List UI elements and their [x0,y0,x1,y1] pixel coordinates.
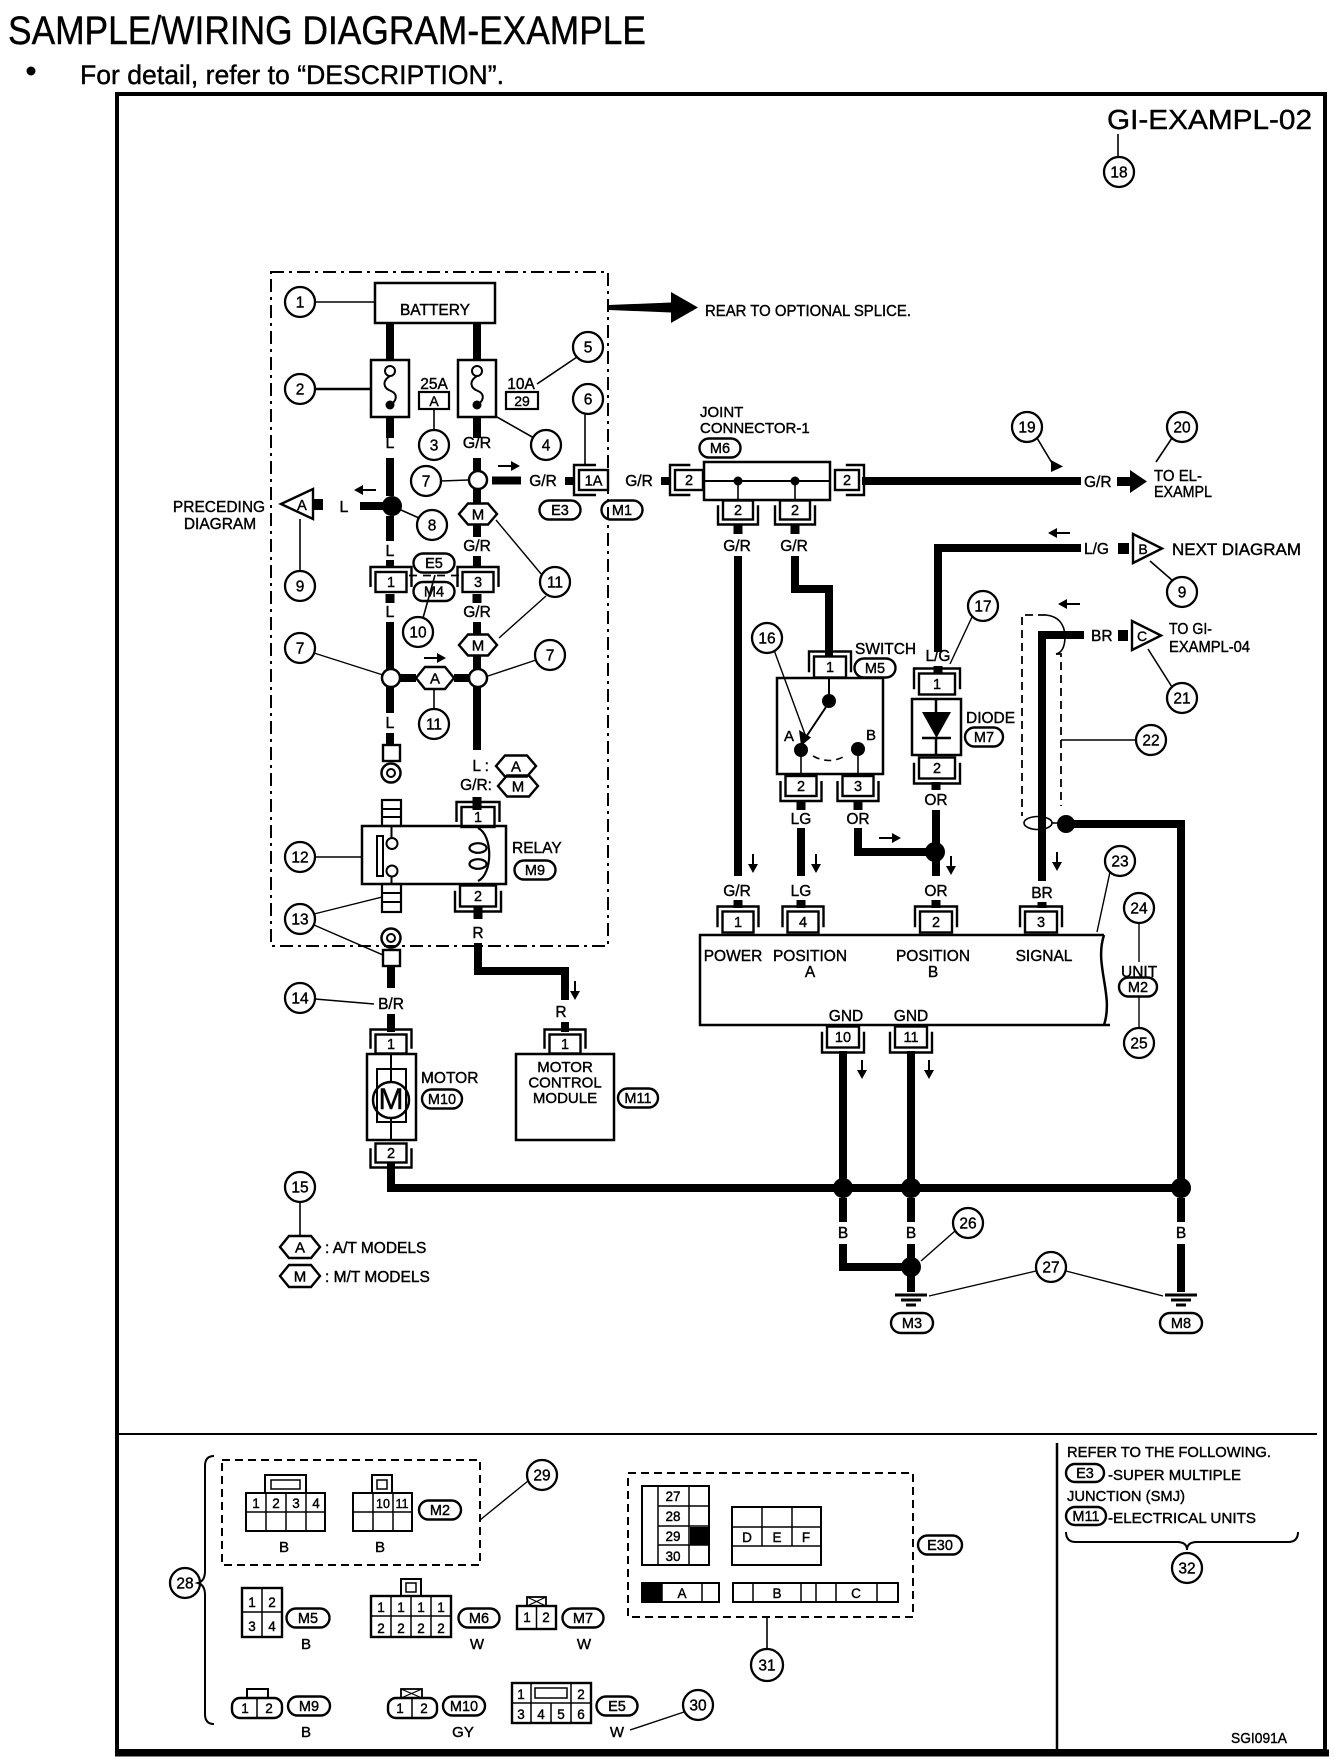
svg-text:2: 2 [387,1146,395,1162]
svg-text:2: 2 [797,779,805,795]
svg-text:REFER TO THE FOLLOWING.: REFER TO THE FOLLOWING. [1067,1444,1271,1461]
svg-text:7: 7 [546,648,555,665]
svg-text:POSITION: POSITION [773,948,847,965]
svg-text:7: 7 [296,641,305,658]
svg-text:5: 5 [584,340,593,357]
svg-text:OR: OR [846,811,869,828]
svg-text:1: 1 [241,1701,249,1716]
svg-text:M10: M10 [428,1092,456,1108]
svg-text:: M/T MODELS: : M/T MODELS [325,1269,430,1286]
svg-text:BR: BR [1091,628,1113,645]
svg-text:GY: GY [452,1724,474,1741]
svg-text:20: 20 [1173,420,1191,437]
svg-text:R: R [472,925,483,942]
svg-text:W: W [470,1636,485,1653]
svg-text:G/R: G/R [780,538,808,555]
svg-text:27: 27 [1042,1260,1059,1277]
svg-text:3: 3 [854,779,862,795]
svg-text:2: 2 [417,1621,425,1636]
svg-text:L: L [386,543,395,560]
svg-text:16: 16 [758,631,775,648]
svg-text:G/R: G/R [463,604,491,621]
svg-text:14: 14 [291,991,309,1008]
svg-text:1: 1 [474,810,482,826]
svg-text:D: D [742,1530,752,1545]
svg-text:1: 1 [296,295,305,312]
svg-text:3: 3 [474,575,482,591]
svg-text:M8: M8 [1171,1316,1191,1332]
svg-text:M5: M5 [298,1611,318,1627]
svg-text:M: M [472,638,485,655]
svg-text:SAMPLE/WIRING DIAGRAM-EXAMPLE: SAMPLE/WIRING DIAGRAM-EXAMPLE [8,9,646,53]
svg-text:G/R: G/R [1084,474,1112,491]
svg-text:2: 2 [397,1621,405,1636]
svg-text:B: B [906,1225,916,1242]
svg-text:11: 11 [903,1030,918,1046]
svg-text:13: 13 [291,912,308,929]
svg-text:1: 1 [933,677,941,693]
svg-text:G/R: G/R [723,538,751,555]
svg-text:M7: M7 [573,1611,593,1627]
svg-text:DIAGRAM: DIAGRAM [184,516,256,533]
svg-text:1: 1 [523,1610,531,1625]
svg-text:F: F [802,1530,810,1545]
svg-text:1: 1 [248,1595,256,1610]
svg-text:B: B [1176,1225,1186,1242]
svg-text:M11: M11 [624,1091,651,1107]
svg-text:26: 26 [959,1216,976,1233]
svg-text:29: 29 [533,1468,550,1485]
svg-text:M2: M2 [1128,980,1148,996]
svg-text:TO EL-: TO EL- [1154,468,1202,485]
svg-text:11: 11 [396,1497,409,1511]
svg-text:12: 12 [291,850,308,867]
svg-text:M2: M2 [430,1503,450,1519]
svg-text:17: 17 [974,599,991,616]
svg-text:MODULE: MODULE [533,1090,597,1107]
svg-text:M5: M5 [865,661,885,677]
svg-text:2: 2 [685,473,693,489]
svg-text:G/R: G/R [625,473,653,490]
svg-text:1: 1 [377,1600,385,1615]
svg-text:2: 2 [272,1496,280,1511]
svg-text:28: 28 [176,1576,193,1593]
svg-text:30: 30 [665,1549,680,1564]
svg-text:CONTROL: CONTROL [528,1075,601,1092]
svg-text:3: 3 [292,1496,300,1511]
svg-text:19: 19 [1018,420,1035,437]
svg-text:2: 2 [377,1621,385,1636]
svg-text:B: B [838,1225,848,1242]
svg-text:9: 9 [1178,585,1187,602]
svg-text:M1: M1 [612,503,632,519]
svg-text:2: 2 [933,761,941,777]
svg-text:POSITION: POSITION [896,948,970,965]
svg-text:3: 3 [517,1707,525,1722]
svg-text:GND: GND [894,1008,928,1025]
svg-text:M9: M9 [525,863,545,879]
svg-text:R: R [555,1004,566,1021]
svg-text:2: 2 [296,382,305,399]
svg-text:E5: E5 [608,1699,626,1715]
svg-text:OR: OR [924,792,947,809]
svg-text:2: 2 [843,473,851,489]
svg-text:LG: LG [791,883,812,900]
svg-text:A: A [297,498,307,514]
svg-text:M11: M11 [1072,1509,1099,1525]
svg-text:OR: OR [924,883,947,900]
svg-text:C: C [851,1586,861,1601]
svg-text:25: 25 [1130,1036,1147,1053]
svg-text:M3: M3 [902,1316,922,1332]
svg-text:2: 2 [577,1687,585,1702]
svg-text:10: 10 [835,1030,851,1046]
svg-text:B/R: B/R [378,996,404,1013]
svg-text:1: 1 [252,1496,260,1511]
svg-text:G/R:: G/R: [460,777,492,794]
svg-text:L/G: L/G [1084,541,1109,558]
svg-text:2: 2 [265,1701,273,1716]
svg-text:A: A [805,964,816,981]
svg-text:6: 6 [584,392,593,409]
svg-text:M6: M6 [469,1611,489,1627]
svg-text:4: 4 [537,1707,545,1722]
svg-text:1: 1 [387,1037,395,1053]
svg-text:2: 2 [437,1621,445,1636]
svg-text:21: 21 [1173,691,1190,708]
svg-text:B: B [866,727,876,744]
svg-text:3: 3 [1037,915,1045,931]
svg-text:29: 29 [665,1529,680,1544]
svg-text:1: 1 [517,1687,525,1702]
svg-text:SWITCH: SWITCH [855,641,916,658]
svg-text:2: 2 [932,915,940,931]
svg-text:: A/T MODELS: : A/T MODELS [325,1240,426,1257]
svg-text:G/R: G/R [529,473,557,490]
svg-text:10A: 10A [507,376,535,393]
svg-text:25A: 25A [420,376,448,393]
svg-text:8: 8 [428,518,437,535]
svg-text:11: 11 [547,575,563,592]
svg-text:1: 1 [561,1037,569,1053]
svg-text:M7: M7 [974,730,994,746]
svg-text:28: 28 [665,1509,680,1524]
svg-text:M6: M6 [710,441,730,457]
svg-text:5: 5 [557,1707,565,1722]
svg-text:A: A [430,671,440,688]
svg-text:-SUPER MULTIPLE: -SUPER MULTIPLE [1108,1467,1241,1484]
svg-text:23: 23 [1111,854,1128,871]
svg-text:E3: E3 [551,503,569,519]
svg-text:1: 1 [734,915,742,931]
svg-text:W: W [610,1724,625,1741]
svg-text:27: 27 [665,1489,680,1504]
svg-text:GI-EXAMPL-02: GI-EXAMPL-02 [1107,104,1312,135]
svg-text:4: 4 [268,1619,276,1634]
svg-text:3: 3 [430,438,439,455]
svg-text:31: 31 [758,1658,775,1675]
svg-text:G/R: G/R [723,883,751,900]
svg-text:M9: M9 [299,1699,319,1715]
svg-text:1: 1 [387,575,395,591]
svg-text:A: A [677,1586,686,1601]
svg-text:For detail, refer to “DESCRIPT: For detail, refer to “DESCRIPTION”. [80,60,504,90]
svg-text:A: A [429,393,439,409]
svg-text:1A: 1A [585,474,603,490]
svg-text:2: 2 [420,1701,428,1716]
svg-text:E: E [772,1530,781,1545]
svg-text:E3: E3 [1076,1466,1094,1482]
svg-text:CONNECTOR-1: CONNECTOR-1 [700,420,810,437]
svg-text:M10: M10 [450,1699,478,1715]
svg-text:1: 1 [396,1701,404,1716]
svg-text:18: 18 [1110,165,1127,182]
svg-text:2: 2 [791,503,799,519]
svg-text:6: 6 [577,1707,585,1722]
svg-text:B: B [772,1586,781,1601]
svg-text:RELAY: RELAY [512,840,562,857]
svg-text:M: M [294,1269,307,1286]
svg-text:4: 4 [542,438,551,455]
svg-text:MOTOR: MOTOR [421,1070,478,1087]
svg-text:DIODE: DIODE [966,710,1015,727]
svg-text:TO GI-: TO GI- [1169,621,1212,638]
svg-text:2: 2 [542,1610,550,1625]
svg-text:L :: L : [472,758,489,775]
svg-text:JOINT: JOINT [700,404,743,421]
svg-text:2: 2 [734,503,742,519]
svg-text:SGI091A: SGI091A [1231,1730,1287,1747]
svg-text:L: L [340,499,349,516]
svg-text:M4: M4 [424,585,444,601]
svg-text:E30: E30 [927,1538,953,1554]
svg-text:29: 29 [514,393,530,409]
svg-text:9: 9 [296,579,305,596]
svg-text:MOTOR: MOTOR [537,1059,593,1076]
svg-text:JUNCTION (SMJ): JUNCTION (SMJ) [1067,1488,1185,1505]
svg-text:GND: GND [829,1008,863,1025]
svg-text:EXAMPL: EXAMPL [1154,484,1212,501]
svg-text:EXAMPL-04: EXAMPL-04 [1169,639,1250,656]
svg-text:PRECEDING: PRECEDING [173,499,265,516]
svg-text:LG: LG [791,811,812,828]
svg-text:L: L [386,715,395,732]
svg-text:L/G: L/G [926,648,951,665]
svg-text:SIGNAL: SIGNAL [1016,948,1073,965]
svg-text:L: L [386,604,395,621]
svg-text:B: B [279,1539,289,1556]
svg-text:22: 22 [1142,733,1159,750]
svg-text:4: 4 [799,915,807,931]
svg-text:2: 2 [268,1595,276,1610]
svg-text:1: 1 [437,1600,445,1615]
svg-text:24: 24 [1130,901,1148,918]
svg-text:B: B [301,1636,311,1653]
svg-text:NEXT DIAGRAM: NEXT DIAGRAM [1172,541,1301,559]
svg-text:30: 30 [689,1698,707,1715]
svg-text:A: A [295,1240,305,1257]
svg-text:B: B [301,1724,311,1741]
svg-text:-ELECTRICAL UNITS: -ELECTRICAL UNITS [1108,1510,1256,1527]
svg-text:A: A [511,759,521,776]
svg-text:7: 7 [422,474,431,491]
svg-text:3: 3 [248,1619,256,1634]
svg-text:4: 4 [312,1496,320,1511]
svg-text:B: B [375,1539,385,1556]
svg-text:B: B [928,964,938,981]
svg-text:1: 1 [397,1600,405,1615]
svg-text:A: A [784,728,794,745]
svg-text:32: 32 [1178,1561,1195,1578]
svg-text:10: 10 [409,625,427,642]
svg-text:G/R: G/R [463,538,491,555]
svg-text:10: 10 [376,1497,390,1511]
svg-text:2: 2 [474,889,482,905]
svg-text:15: 15 [291,1180,308,1197]
svg-text:11: 11 [426,717,442,734]
svg-text:B: B [1138,541,1147,557]
svg-text:1: 1 [826,660,834,676]
svg-text:BR: BR [1031,885,1053,902]
svg-text:W: W [577,1636,592,1653]
svg-text:M: M [379,1083,404,1116]
svg-text:C: C [1137,628,1147,644]
svg-text:1: 1 [417,1600,425,1615]
svg-text:E5: E5 [425,556,443,572]
svg-text:REAR TO OPTIONAL SPLICE.: REAR TO OPTIONAL SPLICE. [705,303,911,320]
svg-text:M: M [472,507,485,524]
svg-text:POWER: POWER [704,948,763,965]
svg-text:BATTERY: BATTERY [400,302,470,319]
svg-text:M: M [512,779,525,796]
